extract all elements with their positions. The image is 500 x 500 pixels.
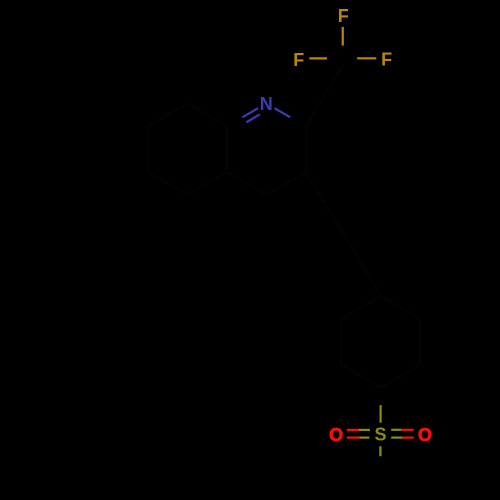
svg-text:N: N xyxy=(260,94,273,114)
svg-text:S: S xyxy=(374,425,386,445)
svg-text:F: F xyxy=(293,50,304,70)
svg-text:F: F xyxy=(381,50,392,70)
svg-text:O: O xyxy=(418,425,432,445)
svg-text:O: O xyxy=(329,425,343,445)
svg-text:F: F xyxy=(338,6,349,26)
